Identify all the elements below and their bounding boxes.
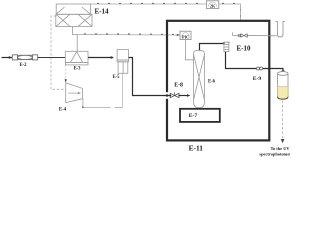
heat exchanger E-14 — [56, 4, 92, 26]
svg-text:PIC: PIC — [182, 35, 189, 40]
instrument box JIC inside E-11 — [180, 31, 191, 39]
svg-text:2K: 2K — [210, 4, 216, 9]
wire E-4 outlet to E-5 bottom line — [81, 99, 84, 108]
wire E-9 down and right to vial — [226, 52, 284, 72]
svg-text:E-8: E-8 — [174, 82, 183, 88]
svg-text:E-4: E-4 — [59, 107, 67, 112]
wire check-valve branch line to U-tube — [233, 32, 277, 35]
wire valve to E-6 with arrow — [178, 95, 188, 97]
dashed drop from E-3 strip into E-4 with dot arrowhead — [65, 65, 67, 81]
svg-text:E-14: E-14 — [95, 8, 110, 16]
arrow inside E-4 — [68, 92, 79, 94]
valve E-8 — [170, 93, 179, 97]
svg-text:E-6: E-6 — [208, 79, 216, 84]
svg-text:E-5: E-5 — [112, 75, 120, 80]
wire E-5 right side down to E-8 valve line — [129, 58, 171, 96]
dashed line from E-14 left down to E-4 inlet — [51, 16, 65, 89]
check valve E-10 symbol — [241, 34, 247, 37]
inline filter E-2 — [12, 55, 37, 60]
svg-text:E-9: E-9 — [253, 76, 262, 82]
svg-text:E-7: E-7 — [189, 113, 198, 119]
tank E-7 — [180, 109, 220, 122]
svg-text:E-11: E-11 — [189, 143, 204, 152]
enclosure E-11 — [167, 21, 269, 141]
svg-text:E-2: E-2 — [19, 63, 27, 68]
compressor E-4 — [66, 83, 83, 103]
wire long middle line to instrument box — [77, 34, 180, 37]
svg-text:spectrophotometer: spectrophotometer — [259, 151, 290, 156]
svg-text:E-3: E-3 — [73, 67, 81, 72]
arrowhead into instrument box — [177, 34, 180, 36]
svg-text:E-10: E-10 — [237, 45, 252, 53]
dryer E-5 — [117, 50, 129, 74]
wire instrument down to E-6 side — [185, 40, 193, 60]
mixer E-3 — [65, 51, 88, 65]
coupling on E-9 line — [257, 67, 263, 70]
wire E-6 top to E-9 dampener — [200, 44, 225, 51]
wire E-5 bottom drop — [122, 73, 124, 107]
sample vial with liquid — [278, 72, 289, 100]
dashed line vial to spectrophotometer with arrow — [282, 101, 284, 140]
instrument box 2K on top line — [206, 1, 218, 9]
dampener E-9 symbol — [223, 42, 230, 51]
column E-6 — [194, 50, 205, 108]
U-tube sample holder — [276, 22, 285, 38]
wire top long line from E-14 to right elbow — [91, 4, 241, 21]
svg-text:To the UV: To the UV — [270, 146, 290, 151]
wire E-14 bottom to junction and down to E-3 — [72, 26, 77, 51]
wire E-3 to E-5 with arrow — [88, 57, 113, 59]
wire E-2 to E-3 — [38, 57, 66, 59]
feed line with arrow into E-2 — [2, 57, 13, 59]
